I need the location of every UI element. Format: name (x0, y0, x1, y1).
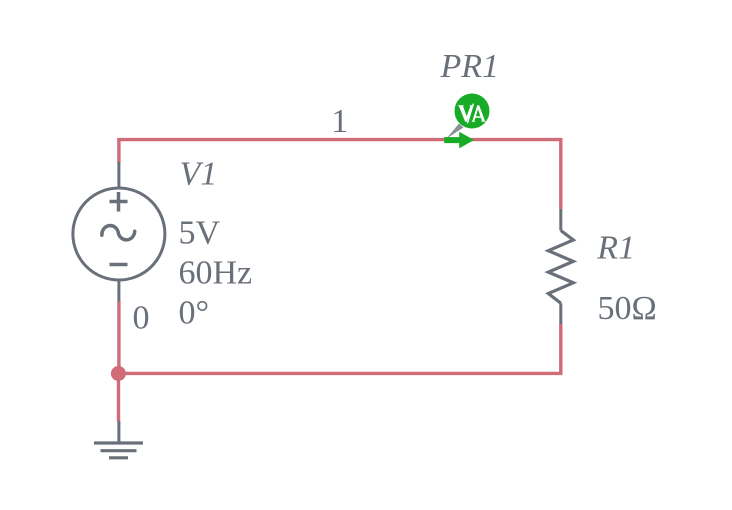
svg-text:0°: 0° (179, 295, 210, 332)
wire top horizontal net 1 (119, 140, 561, 210)
svg-text:V1: V1 (180, 156, 218, 193)
label PR1 (440, 48, 500, 85)
svg-text:1: 1 (331, 103, 348, 140)
value 0deg (179, 295, 210, 332)
wire bottom horizontal net 0 (119, 301, 561, 422)
svg-text:0: 0 (133, 299, 150, 336)
node 0 label (133, 299, 150, 336)
probe PR1 pointer (447, 124, 464, 139)
svg-text:50Ω: 50Ω (598, 290, 657, 327)
value 5V (179, 215, 221, 252)
ground (94, 421, 143, 458)
probe PR1 arrow (444, 132, 474, 149)
svg-text:PR1: PR1 (440, 48, 500, 85)
label R1 (596, 230, 635, 267)
svg-text:R1: R1 (596, 230, 635, 267)
resistor R1 (548, 209, 573, 324)
value 60Hz (179, 255, 253, 292)
svg-text:60Hz: 60Hz (179, 255, 253, 292)
junction node 0 dot (111, 366, 126, 381)
label V1 (180, 156, 218, 193)
svg-text:5V: 5V (179, 215, 221, 252)
node 1 label (331, 103, 348, 140)
value 50ohm (598, 290, 657, 327)
AC source V1 (73, 162, 165, 302)
probe PR1 body (455, 94, 490, 129)
